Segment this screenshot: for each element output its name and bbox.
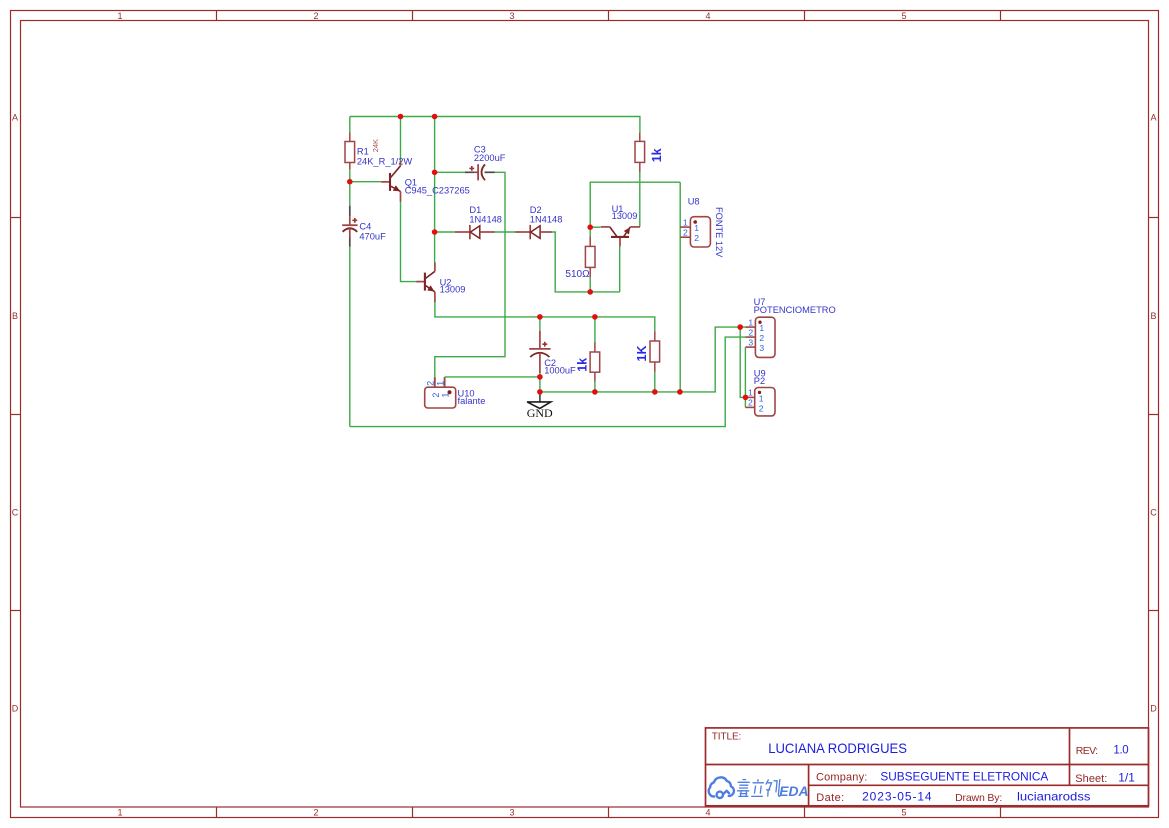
- svg-text:4: 4: [705, 808, 710, 818]
- wire node to 510 top: [589, 227, 591, 236]
- wire R1 bottom to node: [349, 169, 351, 182]
- svg-text:P2: P2: [754, 376, 765, 386]
- svg-text:13009: 13009: [612, 211, 638, 221]
- svg-text:GND: GND: [527, 406, 553, 420]
- svg-text:1: 1: [117, 808, 122, 818]
- svg-text:1: 1: [435, 381, 445, 386]
- transistor Q1: [381, 161, 400, 202]
- svg-text:U8: U8: [688, 197, 700, 207]
- resistor 1k mid: [590, 342, 600, 382]
- wire node to C3 left: [435, 171, 466, 173]
- svg-text:2: 2: [694, 233, 699, 243]
- wire R1 top: [349, 117, 351, 134]
- wire 1k bottom to U1 emitter: [639, 172, 641, 227]
- svg-text:1: 1: [683, 217, 688, 227]
- wire U1 collector stub: [590, 226, 600, 228]
- svg-text:2: 2: [313, 11, 318, 21]
- wire D1 to D2: [494, 231, 517, 233]
- svg-text:3: 3: [748, 337, 753, 347]
- svg-text:C945_C237265: C945_C237265: [405, 185, 470, 195]
- transistor U2: [416, 262, 435, 302]
- wire U10 pin1 to node: [445, 376, 540, 378]
- node D1 branch: [432, 229, 438, 235]
- svg-text:3: 3: [509, 808, 514, 818]
- node top-1: [398, 114, 404, 120]
- svg-text:2: 2: [748, 398, 753, 408]
- svg-text:3: 3: [759, 343, 764, 353]
- svg-text:B: B: [12, 311, 18, 321]
- capacitor C4: [342, 206, 357, 247]
- node C2 bottom: [537, 374, 543, 380]
- wire 1k mid bottom: [594, 381, 596, 392]
- svg-text:D: D: [12, 704, 19, 714]
- node R1/Q1/C4: [347, 179, 353, 185]
- wire node to D1: [435, 231, 456, 233]
- resistor 1K right: [650, 331, 660, 372]
- svg-text:1: 1: [694, 223, 699, 233]
- svg-text:510Ω: 510Ω: [565, 269, 590, 280]
- resistor R1: [345, 132, 355, 169]
- svg-text:2: 2: [759, 333, 764, 343]
- svg-text:2023-05-14: 2023-05-14: [862, 790, 932, 804]
- svg-text:1000uF: 1000uF: [544, 366, 576, 376]
- wire GND rail to U7 pin1: [540, 327, 746, 392]
- resistor 510: [585, 236, 595, 277]
- wire Q1 emitter to U2 base: [401, 201, 417, 281]
- wire 510 bottom: [589, 277, 591, 292]
- svg-text:R1: R1: [357, 147, 369, 157]
- wire mid horizontal rail: [590, 182, 680, 227]
- svg-text:C: C: [12, 508, 19, 518]
- svg-text:C: C: [1150, 508, 1157, 518]
- wire U1 base down: [619, 246, 621, 292]
- node C3 branch: [432, 170, 438, 176]
- wire node to C2 top: [539, 317, 541, 332]
- capacitor C3: [465, 164, 495, 180]
- wire D2 to 510 rail: [551, 232, 620, 292]
- svg-text:2: 2: [683, 228, 688, 238]
- wire top rail VCC: [350, 117, 640, 133]
- svg-text:FONTE 12V: FONTE 12V: [714, 207, 724, 258]
- wire U8 vertical: [679, 182, 681, 392]
- svg-text:24K_R_1/2W: 24K_R_1/2W: [357, 156, 413, 166]
- svg-text:1: 1: [748, 388, 753, 398]
- svg-text:2: 2: [748, 327, 753, 337]
- ground symbol GND: [527, 392, 551, 409]
- capacitor C2: [529, 331, 550, 373]
- node gnd-3: [652, 389, 658, 395]
- svg-text:lucianarodss: lucianarodss: [1017, 789, 1090, 803]
- svg-text:24K: 24K: [371, 139, 380, 152]
- connector U9: [745, 388, 775, 416]
- node U7 pin1: [737, 324, 743, 330]
- svg-text:C4: C4: [359, 222, 371, 232]
- svg-text:1: 1: [759, 393, 764, 403]
- svg-text:A: A: [12, 113, 18, 123]
- svg-text:TITLE:: TITLE:: [712, 732, 742, 743]
- svg-text:4: 4: [705, 11, 710, 21]
- svg-text:470uF: 470uF: [359, 231, 386, 241]
- node top-2: [432, 114, 438, 120]
- svg-text:1/1: 1/1: [1118, 771, 1135, 785]
- svg-text:falante: falante: [458, 396, 486, 406]
- svg-text:Drawn By:: Drawn By:: [955, 792, 1002, 804]
- wire main vertical: [434, 117, 436, 263]
- resistor 1k top right: [635, 132, 645, 172]
- wire node to C4 top: [349, 182, 351, 207]
- svg-text:1K: 1K: [635, 346, 649, 362]
- connector U7: [745, 317, 775, 357]
- svg-text:D: D: [1150, 704, 1157, 714]
- wire C4 bottom long vertical: [349, 246, 351, 426]
- svg-text:2: 2: [759, 403, 764, 413]
- svg-text:5: 5: [901, 11, 906, 21]
- svg-text:A: A: [1150, 113, 1156, 123]
- node 1k mid top: [592, 314, 598, 320]
- svg-text:5: 5: [901, 808, 906, 818]
- wire 1K right bottom: [654, 372, 656, 392]
- node C2 top: [537, 314, 543, 320]
- wire bottom rail to U7 pin2: [350, 337, 746, 427]
- svg-text:Company:: Company:: [816, 771, 867, 783]
- svg-text:1.0: 1.0: [1113, 745, 1128, 757]
- node 510 bottom: [587, 289, 593, 295]
- svg-text:1: 1: [759, 323, 764, 333]
- svg-text:EDA: EDA: [779, 784, 808, 799]
- connector U8: [680, 217, 710, 247]
- svg-text:1: 1: [117, 11, 122, 21]
- svg-text:3: 3: [509, 11, 514, 21]
- svg-text:1k: 1k: [575, 358, 589, 372]
- svg-text:Date:: Date:: [816, 792, 844, 804]
- svg-text:1N4148: 1N4148: [469, 214, 502, 224]
- wire C3 right to U10 pin2: [435, 172, 505, 377]
- wire 1k mid top: [594, 317, 596, 342]
- svg-text:2200uF: 2200uF: [474, 153, 506, 163]
- svg-text:Sheet:: Sheet:: [1075, 773, 1107, 785]
- wire Q1 collector: [400, 117, 402, 162]
- svg-text:LUCIANA RODRIGUES: LUCIANA RODRIGUES: [768, 740, 907, 756]
- wire node to Q1 base: [350, 181, 382, 183]
- node gnd-4: [677, 389, 683, 395]
- transistor U1 (rotated): [601, 227, 640, 247]
- svg-text:SUBSEGUENTE ELETRONICA: SUBSEGUENTE ELETRONICA: [880, 770, 1048, 783]
- svg-text:1: 1: [748, 317, 753, 327]
- svg-text:2: 2: [313, 808, 318, 818]
- svg-text:2: 2: [426, 381, 436, 386]
- svg-text:POTENCIOMETRO: POTENCIOMETRO: [754, 305, 836, 315]
- logo JLCEDA cloud: [709, 777, 734, 798]
- node gnd-2: [592, 389, 598, 395]
- node U9 pin1: [743, 395, 749, 401]
- svg-text:1: 1: [441, 392, 451, 397]
- node gnd-1: [537, 389, 543, 395]
- svg-text:1N4148: 1N4148: [530, 214, 563, 224]
- wire U7 pin3 to U9 pin2: [744, 347, 746, 407]
- svg-text:13009: 13009: [440, 284, 466, 294]
- wire C2 bottom to gnd node: [539, 373, 541, 392]
- wire U7 pin1 to U9 pin1: [740, 327, 746, 397]
- connector U10: [425, 377, 456, 408]
- svg-text:REV:: REV:: [1076, 745, 1098, 757]
- logo text 嘉立创 (stroke approximation): [737, 779, 780, 797]
- svg-text:1k: 1k: [650, 148, 664, 162]
- node U1 collector: [587, 224, 593, 230]
- diode D1: [455, 225, 494, 239]
- diode D2: [515, 225, 552, 239]
- wire U2 emitter rail: [435, 302, 655, 331]
- svg-text:B: B: [1150, 311, 1156, 321]
